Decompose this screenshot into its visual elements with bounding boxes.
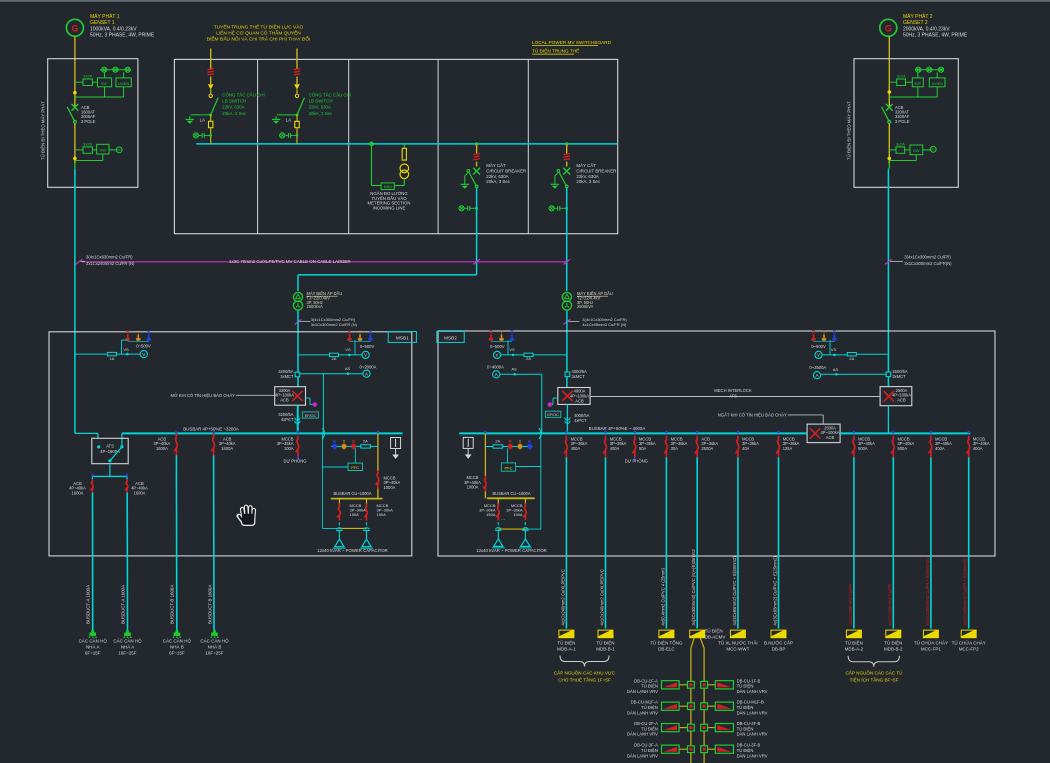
svg-text:LB SWITCH: LB SWITCH bbox=[222, 99, 246, 104]
svg-text:0~2500A: 0~2500A bbox=[809, 365, 826, 370]
svg-text:1000A: 1000A bbox=[467, 485, 479, 490]
svg-text:TỦ ĐIỆN: TỦ ĐIỆN bbox=[705, 627, 723, 634]
svg-text:CẤP NGUỒN CÁC CÁC TỦ: CẤP NGUỒN CÁC CÁC TỦ bbox=[845, 669, 902, 675]
svg-text:…: … bbox=[358, 516, 363, 521]
svg-text:B: B bbox=[833, 330, 836, 335]
svg-text:TỦ ĐIỆN: TỦ ĐIỆN bbox=[737, 684, 754, 689]
svg-text:3x2A: 3x2A bbox=[897, 74, 906, 79]
svg-text:150A: 150A bbox=[486, 512, 496, 517]
svg-text:50Hz, 3 PHASE, 4W, PRIME: 50Hz, 3 PHASE, 4W, PRIME bbox=[903, 33, 968, 39]
svg-text:TỦ ĐIỆN: TỦ ĐIỆN bbox=[737, 726, 754, 731]
svg-text:4x1Cx240mm2 Cu/XLPE/PVC: 4x1Cx240mm2 Cu/XLPE/PVC bbox=[560, 569, 565, 625]
svg-text:VS: VS bbox=[345, 347, 351, 352]
svg-text:DB-CU-3F-B: DB-CU-3F-B bbox=[737, 743, 761, 748]
svg-text:2500kVA: 2500kVA bbox=[307, 304, 324, 309]
svg-text:TỦ ĐIỆN: TỦ ĐIỆN bbox=[641, 684, 658, 689]
svg-text:NHÀ A: NHÀ A bbox=[121, 644, 135, 650]
svg-text:BUSBAR CU~1000A: BUSBAR CU~1000A bbox=[492, 491, 530, 496]
svg-text:TỦ ĐIỆN: TỦ ĐIỆN bbox=[641, 748, 658, 753]
svg-text:V: V bbox=[364, 353, 367, 358]
svg-text:MCC-FP2: MCC-FP2 bbox=[959, 646, 979, 651]
svg-text:VS: VS bbox=[831, 347, 837, 352]
svg-text:G: G bbox=[885, 23, 892, 33]
svg-text:KWH: KWH bbox=[384, 185, 392, 189]
svg-text:TỦ ĐIỆN ĐI THEO MÁY PHÁT: TỦ ĐIỆN ĐI THEO MÁY PHÁT bbox=[41, 101, 46, 160]
svg-text:NHÀ A: NHÀ A bbox=[86, 644, 100, 650]
svg-text:V: V bbox=[496, 353, 499, 358]
svg-text:AS: AS bbox=[345, 366, 351, 371]
svg-text:DỰ PHÒNG: DỰ PHÒNG bbox=[283, 458, 306, 463]
svg-text:DÀN LẠNH VRV: DÀN LẠNH VRV bbox=[627, 689, 658, 694]
svg-text:400A: 400A bbox=[935, 446, 945, 451]
svg-text:3x2A: 3x2A bbox=[83, 74, 92, 79]
svg-text:CÔNG TẮC CẦU CHÌ: CÔNG TẮC CẦU CHÌ bbox=[309, 92, 351, 97]
svg-text:A: A bbox=[365, 372, 368, 377]
svg-text:DB-CU-2F-A: DB-CU-2F-A bbox=[634, 721, 658, 726]
svg-text:4x1Cx240mm2 Cu/XLPE/PVC: 4x1Cx240mm2 Cu/XLPE/PVC bbox=[600, 569, 605, 625]
svg-text:20kA, 3 Sec: 20kA, 3 Sec bbox=[576, 179, 600, 184]
svg-text:Y: Y bbox=[500, 330, 503, 335]
svg-text:…: … bbox=[501, 516, 506, 521]
svg-text:22kV, 630A: 22kV, 630A bbox=[576, 174, 598, 179]
svg-text:BUSDUCT-B 1600A: BUSDUCT-B 1600A bbox=[207, 585, 212, 624]
svg-text:TỦ ĐIỆN ĐI THEO MÁY PHÁT: TỦ ĐIỆN ĐI THEO MÁY PHÁT bbox=[847, 101, 852, 160]
svg-text:12x40 kVAR ~ POWER CAPACITOR: 12x40 kVAR ~ POWER CAPACITOR bbox=[317, 548, 388, 553]
svg-text:KW: KW bbox=[100, 148, 107, 153]
svg-text:4xPCT: 4xPCT bbox=[574, 418, 587, 423]
svg-text:1600A: 1600A bbox=[72, 490, 84, 495]
svg-text:0~500V: 0~500V bbox=[136, 344, 151, 349]
svg-text:TỦ CHỮA CHÁY: TỦ CHỮA CHÁY bbox=[952, 640, 986, 646]
svg-text:DB-CU-1F-A: DB-CU-1F-A bbox=[634, 678, 658, 683]
svg-text:NHÀ B: NHÀ B bbox=[170, 644, 184, 650]
svg-text:20kA, 3 Sec: 20kA, 3 Sec bbox=[222, 111, 246, 116]
svg-text:Y: Y bbox=[519, 439, 522, 444]
svg-text:B: B bbox=[510, 330, 513, 335]
svg-text:22kV, 630A: 22kV, 630A bbox=[222, 105, 244, 110]
svg-text:3x2A: 3x2A bbox=[83, 141, 92, 146]
svg-text:4x1Cx300mm2 Cu/FR: 4x1Cx300mm2 Cu/FR bbox=[887, 584, 892, 625]
svg-text:CÁC CĂN HỘ: CÁC CĂN HỘ bbox=[163, 638, 192, 644]
svg-text:4x(3Cx95mm2) Cu/PVC + E(25mm2): 4x(3Cx95mm2) Cu/PVC + E(25mm2) bbox=[773, 556, 778, 626]
svg-text:MDB-A-1: MDB-A-1 bbox=[557, 646, 576, 651]
svg-text:1A: 1A bbox=[110, 356, 115, 361]
svg-text:DÀN LẠNH VRV: DÀN LẠNH VRV bbox=[737, 753, 768, 758]
svg-text:E/F: E/F bbox=[101, 81, 108, 86]
svg-text:DỰ PHÒNG: DỰ PHÒNG bbox=[625, 458, 648, 463]
svg-text:500A: 500A bbox=[858, 446, 868, 451]
svg-text:KW: KW bbox=[913, 148, 920, 153]
svg-text:3x2A: 3x2A bbox=[896, 141, 905, 146]
svg-text:1000A: 1000A bbox=[384, 485, 396, 490]
svg-text:6F~15F: 6F~15F bbox=[169, 651, 185, 656]
svg-text:GENSET 2: GENSET 2 bbox=[903, 20, 928, 26]
svg-text:4x50.4mm2 Cu/PVC 4 (25mm): 4x50.4mm2 Cu/PVC 4 (25mm) bbox=[660, 568, 665, 626]
svg-text:100A: 100A bbox=[284, 446, 294, 451]
svg-text:TIỆN ÍCH TẦNG BF~5F: TIỆN ÍCH TẦNG BF~5F bbox=[850, 676, 899, 683]
svg-text:LA: LA bbox=[200, 118, 205, 123]
svg-text:DÀN LẠNH VRV: DÀN LẠNH VRV bbox=[737, 710, 768, 715]
svg-text:2A: 2A bbox=[849, 356, 854, 361]
svg-text:DÀN LẠNH VRV: DÀN LẠNH VRV bbox=[627, 710, 658, 715]
svg-text:40A: 40A bbox=[742, 446, 750, 451]
svg-text:3x1Cx300mm2 Cu/FR (N): 3x1Cx300mm2 Cu/FR (N) bbox=[311, 322, 358, 327]
svg-text:3x(3Cx300mm2) Cu/PVC (N)+(E)25: 3x(3Cx300mm2) Cu/PVC (N)+(E)25mm2 bbox=[691, 549, 696, 626]
svg-text:R: R bbox=[812, 330, 815, 335]
svg-text:A: A bbox=[816, 373, 819, 378]
svg-text:0~500V: 0~500V bbox=[360, 344, 375, 349]
svg-text:TỦ ĐIỆN: TỦ ĐIỆN bbox=[641, 726, 658, 731]
svg-text:MCC-FP1: MCC-FP1 bbox=[921, 646, 941, 651]
svg-text:DÀN LẠNH VRV: DÀN LẠNH VRV bbox=[737, 689, 768, 694]
svg-text:DÀN LẠNH VRV: DÀN LẠNH VRV bbox=[737, 732, 768, 737]
svg-text:V: V bbox=[142, 352, 145, 357]
svg-text:0~500V: 0~500V bbox=[811, 344, 826, 349]
svg-text:MÁY CẮT: MÁY CẮT bbox=[486, 163, 506, 168]
svg-text:400A: 400A bbox=[973, 446, 983, 451]
svg-text:400A: 400A bbox=[610, 446, 620, 451]
svg-text:1600A: 1600A bbox=[134, 490, 146, 495]
svg-text:MSB1: MSB1 bbox=[396, 336, 409, 341]
svg-text:CẤP NGUỒN CÁC KHU VỰC: CẤP NGUỒN CÁC KHU VỰC bbox=[554, 669, 616, 675]
svg-text:MÁY CẮT: MÁY CẮT bbox=[576, 163, 596, 168]
svg-text:PFC: PFC bbox=[505, 466, 513, 471]
svg-text:50Hz, 3 PHASE, 4W, PRIME: 50Hz, 3 PHASE, 4W, PRIME bbox=[90, 33, 155, 39]
svg-text:4x1Cx300mm2 Cu/FR: 4x1Cx300mm2 Cu/FR bbox=[848, 584, 853, 625]
svg-text:V: V bbox=[817, 353, 820, 358]
svg-text:LB SWITCH: LB SWITCH bbox=[309, 99, 333, 104]
svg-text:150A: 150A bbox=[513, 512, 523, 517]
svg-text:B: B bbox=[369, 330, 372, 335]
svg-text:MÁY PHÁT 2: MÁY PHÁT 2 bbox=[903, 13, 933, 20]
svg-text:EF/OC: EF/OC bbox=[547, 413, 559, 417]
svg-text:Y: Y bbox=[823, 330, 826, 335]
svg-text:BUSDUCT-A 1600A: BUSDUCT-A 1600A bbox=[120, 585, 125, 624]
svg-text:4x1Cx95mm2 Cu/FR (N): 4x1Cx95mm2 Cu/FR (N) bbox=[582, 322, 627, 327]
svg-text:DÀN LẠNH VRV: DÀN LẠNH VRV bbox=[627, 753, 658, 758]
svg-text:1600A: 1600A bbox=[221, 446, 233, 451]
svg-text:DB-CU-2F-B: DB-CU-2F-B bbox=[737, 721, 761, 726]
svg-text:G: G bbox=[71, 23, 78, 33]
svg-text:PFC: PFC bbox=[351, 465, 359, 470]
svg-text:DB-CU-1F-B: DB-CU-1F-B bbox=[737, 678, 761, 683]
svg-text:2500A: 2500A bbox=[701, 446, 713, 451]
svg-text:E/F: E/F bbox=[915, 81, 922, 86]
svg-text:CÁC CĂN HỘ: CÁC CĂN HỘ bbox=[79, 638, 108, 644]
svg-text:EF/OC: EF/OC bbox=[305, 414, 317, 418]
svg-text:500A: 500A bbox=[898, 446, 908, 451]
svg-text:ACB: ACB bbox=[575, 398, 584, 403]
svg-text:LA: LA bbox=[286, 118, 291, 123]
svg-text:2A: 2A bbox=[526, 356, 531, 361]
svg-text:6F~15F: 6F~15F bbox=[85, 651, 101, 656]
svg-text:B: B bbox=[333, 439, 336, 444]
svg-text:R: R bbox=[509, 439, 512, 444]
svg-text:1x3C 70mm2 Cu/XLPE/PVC MV CABL: 1x3C 70mm2 Cu/XLPE/PVC MV CABLE ON CABLE… bbox=[229, 259, 351, 264]
svg-text:3(4x1Cx300mm2 Cu/FR): 3(4x1Cx300mm2 Cu/FR) bbox=[904, 255, 951, 260]
svg-text:ACB: ACB bbox=[897, 397, 906, 402]
svg-text:TỦ ĐIỆN TỔNG: TỦ ĐIỆN TỔNG bbox=[650, 639, 683, 646]
svg-text:ĐIỂM ĐẤU NỐI VÀ CHI TRẢ CHI PH: ĐIỂM ĐẤU NỐI VÀ CHI TRẢ CHI PHÍ THAY ĐỔI bbox=[207, 36, 311, 43]
svg-text:TỦ ĐIỆN: TỦ ĐIỆN bbox=[884, 639, 902, 646]
svg-text:CÔNG TẮC CẦU CHÌ: CÔNG TẮC CẦU CHÌ bbox=[222, 92, 264, 97]
svg-text:MỞ KHI CÓ TÍN HIỆU BÁO CHÁY: MỞ KHI CÓ TÍN HIỆU BÁO CHÁY bbox=[171, 393, 236, 398]
svg-text:50A: 50A bbox=[639, 446, 647, 451]
svg-text:TỦ ĐIỆN: TỦ ĐIỆN bbox=[737, 748, 754, 753]
svg-text:NHÀ B: NHÀ B bbox=[208, 644, 222, 650]
svg-text:TỦ XL NƯỚC THẢI: TỦ XL NƯỚC THẢI bbox=[718, 640, 757, 646]
svg-text:BUSDUCT-A 1600A: BUSDUCT-A 1600A bbox=[86, 585, 91, 624]
svg-text:R: R bbox=[348, 330, 351, 335]
svg-text:2A: 2A bbox=[363, 438, 368, 443]
svg-text:TỦ ĐIỆN: TỦ ĐIỆN bbox=[597, 639, 615, 646]
svg-text:AS: AS bbox=[833, 367, 839, 372]
svg-text:4x(1Cx300mm2 Cu/FR + E(95mm2): 4x(1Cx300mm2 Cu/FR + E(95mm2) bbox=[925, 558, 930, 626]
svg-text:Y: Y bbox=[343, 439, 346, 444]
svg-text:LOCAL POWER MV SWITCHBOARD: LOCAL POWER MV SWITCHBOARD bbox=[532, 40, 612, 45]
svg-text:16F~25F: 16F~25F bbox=[118, 651, 136, 656]
svg-text:CIRCUIT BREAKER: CIRCUIT BREAKER bbox=[486, 168, 526, 173]
svg-text:0~500V: 0~500V bbox=[490, 344, 505, 349]
svg-text:4xPCT: 4xPCT bbox=[281, 417, 294, 422]
svg-text:Y: Y bbox=[359, 330, 362, 335]
svg-text:CÁC CĂN HỘ: CÁC CĂN HỘ bbox=[113, 638, 142, 644]
svg-text:400A: 400A bbox=[571, 446, 581, 451]
svg-text:VS: VS bbox=[509, 347, 515, 352]
svg-text:TỦ ĐIỆN: TỦ ĐIỆN bbox=[641, 705, 658, 710]
svg-text:DÀN LẠNH VRV: DÀN LẠNH VRV bbox=[627, 732, 658, 737]
svg-text:MCC-WWT: MCC-WWT bbox=[726, 646, 749, 651]
svg-text:BUSBAR 4P+50%E ~3200A: BUSBAR 4P+50%E ~3200A bbox=[183, 426, 238, 431]
svg-text:B: B bbox=[147, 330, 150, 335]
svg-text:UV/EN: UV/EN bbox=[932, 82, 943, 86]
svg-text:2500kVA: 2500kVA bbox=[577, 304, 594, 309]
svg-text:30A: 30A bbox=[671, 446, 679, 451]
svg-text:150A: 150A bbox=[377, 512, 387, 517]
svg-text:R: R bbox=[489, 330, 492, 335]
svg-text:3(4x1Cx630mm2 Cu/FR): 3(4x1Cx630mm2 Cu/FR) bbox=[86, 255, 133, 260]
svg-text:2A: 2A bbox=[332, 356, 337, 361]
svg-text:B.NƯỚC CẤP: B.NƯỚC CẤP bbox=[764, 640, 793, 646]
svg-text:3xMCT: 3xMCT bbox=[892, 374, 906, 379]
svg-text:ACB: ACB bbox=[826, 435, 835, 440]
svg-text:DB-CU-M1F-A: DB-CU-M1F-A bbox=[631, 700, 658, 705]
svg-text:ATS: ATS bbox=[729, 394, 737, 399]
svg-text:AS: AS bbox=[511, 367, 517, 372]
svg-text:22kV, 630A: 22kV, 630A bbox=[309, 105, 331, 110]
svg-text:4x(1Cx300mm2 Cu/FR + E(95mm2): 4x(1Cx300mm2 Cu/FR + E(95mm2) bbox=[963, 558, 968, 626]
svg-text:MÁY PHÁT 1: MÁY PHÁT 1 bbox=[90, 13, 120, 20]
svg-text:16F~25F: 16F~25F bbox=[205, 651, 223, 656]
svg-text:DB-CU-3F-A: DB-CU-3F-A bbox=[634, 743, 658, 748]
svg-text:DB-CU-M1F-B: DB-CU-M1F-B bbox=[737, 700, 764, 705]
svg-text:MDB-A-2: MDB-A-2 bbox=[845, 646, 864, 651]
svg-text:TỦ ĐIỆN: TỦ ĐIỆN bbox=[737, 705, 754, 710]
svg-text:CÁC CĂN HỘ: CÁC CĂN HỘ bbox=[200, 638, 229, 644]
svg-text:22kV, 630A: 22kV, 630A bbox=[486, 174, 508, 179]
svg-text:MECH INTERLOCK: MECH INTERLOCK bbox=[714, 388, 752, 393]
svg-text:12x40 kVAR ~ POWER CAPACITOR: 12x40 kVAR ~ POWER CAPACITOR bbox=[476, 548, 547, 553]
svg-text:2A: 2A bbox=[495, 438, 500, 443]
svg-text:2x1Cx240mm2 Cu/FR (N): 2x1Cx240mm2 Cu/FR (N) bbox=[86, 261, 135, 266]
svg-text:PF: PF bbox=[931, 148, 935, 152]
svg-text:DB-ACMV: DB-ACMV bbox=[705, 634, 726, 639]
svg-text:BUSBAR CU~1000A: BUSBAR CU~1000A bbox=[333, 491, 371, 496]
svg-text:R: R bbox=[352, 439, 355, 444]
svg-text:MDB-B-2: MDB-B-2 bbox=[884, 646, 903, 651]
svg-text:CIRCUIT BREAKER: CIRCUIT BREAKER bbox=[576, 168, 616, 173]
svg-text:BUSDUCT-B 1600A: BUSDUCT-B 1600A bbox=[170, 585, 175, 624]
svg-text:0~2000A: 0~2000A bbox=[360, 365, 377, 370]
svg-text:INCOMING LINE: INCOMING LINE bbox=[373, 205, 406, 210]
svg-text:MDB-B-1: MDB-B-1 bbox=[596, 646, 615, 651]
svg-text:MSB2: MSB2 bbox=[444, 336, 457, 341]
svg-text:20kA, 3 Sec: 20kA, 3 Sec bbox=[309, 111, 333, 116]
svg-text:ATS: ATS bbox=[106, 443, 114, 448]
svg-text:BUSBAR 4P+50%E ~ 4000A: BUSBAR 4P+50%E ~ 4000A bbox=[589, 426, 646, 431]
svg-text:PF: PF bbox=[117, 149, 121, 153]
svg-text:R: R bbox=[126, 330, 129, 335]
svg-text:TỦ CHỮA CHÁY: TỦ CHỮA CHÁY bbox=[914, 640, 948, 646]
svg-text:TỦ ĐIỆN: TỦ ĐIỆN bbox=[845, 639, 863, 646]
svg-text:ACB: ACB bbox=[280, 398, 289, 403]
svg-text:CHO THUÊ TẦNG 1F~5F: CHO THUÊ TẦNG 1F~5F bbox=[558, 676, 611, 683]
svg-text:3 POLE: 3 POLE bbox=[895, 119, 910, 124]
svg-text:B: B bbox=[528, 439, 531, 444]
svg-text:TỦ ĐIỆN TRUNG THẾ: TỦ ĐIỆN TRUNG THẾ bbox=[532, 47, 579, 54]
svg-text:4x(3Cx95mm2) Cu/PVC + E(50mm2): 4x(3Cx95mm2) Cu/PVC + E(50mm2) bbox=[732, 556, 737, 626]
svg-text:TỦ ĐIỆN: TỦ ĐIỆN bbox=[557, 639, 575, 646]
svg-text:GENSET 1: GENSET 1 bbox=[90, 20, 115, 26]
svg-text:1600A: 1600A bbox=[156, 446, 168, 451]
svg-text:A: A bbox=[495, 372, 498, 377]
svg-text:DB-ELC: DB-ELC bbox=[658, 646, 675, 651]
svg-text:3x1Cx300mm2 Cu/FR(N): 3x1Cx300mm2 Cu/FR(N) bbox=[904, 261, 952, 266]
svg-text:NGẮT KHI CÓ TÍN HIỆU BÁO CHÁY: NGẮT KHI CÓ TÍN HIỆU BÁO CHÁY bbox=[718, 412, 787, 417]
svg-text:20kA, 3 Sec: 20kA, 3 Sec bbox=[486, 179, 510, 184]
svg-text:3xMCT: 3xMCT bbox=[280, 374, 294, 379]
svg-text:3 POLE: 3 POLE bbox=[81, 119, 96, 124]
svg-text:0~4000A: 0~4000A bbox=[487, 365, 504, 370]
svg-text:Y: Y bbox=[137, 330, 140, 335]
svg-text:VS: VS bbox=[123, 347, 129, 352]
svg-text:UV/EN: UV/EN bbox=[118, 82, 129, 86]
svg-text:3xMCT: 3xMCT bbox=[572, 374, 586, 379]
svg-text:125A: 125A bbox=[783, 446, 793, 451]
svg-text:DB-BP: DB-BP bbox=[772, 646, 786, 651]
